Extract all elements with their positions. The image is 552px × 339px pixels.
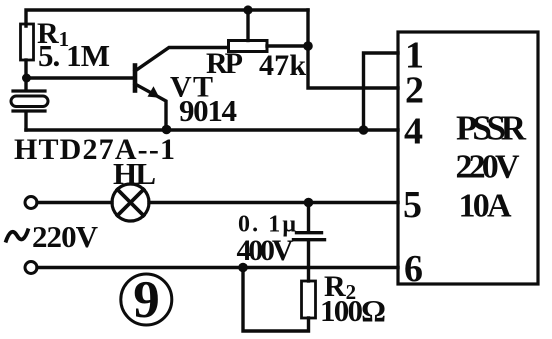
transistor VT collector bbox=[135, 48, 228, 72]
piezo element HTD27A-1 bbox=[11, 78, 48, 130]
potentiometer RP bbox=[229, 41, 268, 52]
node emitter junction dot bbox=[162, 125, 172, 135]
terminal lower left bbox=[25, 262, 37, 274]
capacitor C 0.1u top lead bbox=[307, 203, 310, 232]
figure number circle 9 bbox=[121, 274, 172, 325]
svg-text:10A: 10A bbox=[459, 188, 512, 225]
svg-text:9014: 9014 bbox=[179, 93, 237, 128]
node top rail wiper junction dot bbox=[243, 5, 252, 14]
wire node A to transistor base bbox=[26, 76, 135, 79]
label AC source tilde bbox=[6, 229, 29, 243]
wire terminal to lamp HL bbox=[37, 201, 112, 204]
svg-text:RP: RP bbox=[206, 47, 243, 80]
wire terminal to pin 6 of PSSR bbox=[37, 266, 398, 269]
lamp HL bbox=[112, 184, 149, 221]
node pin6 wire junction dot bbox=[238, 263, 248, 273]
node capacitor top junction dot bbox=[304, 198, 314, 208]
wire bottom rail to pin 4 of PSSR bbox=[26, 128, 398, 131]
svg-text:9: 9 bbox=[133, 271, 160, 329]
svg-text:400V: 400V bbox=[237, 234, 294, 267]
wire right vertical down to pin 2 of PSSR bbox=[308, 10, 398, 88]
resistor R2 bbox=[302, 281, 316, 318]
wire R1 bottom lead to node A bbox=[24, 60, 27, 78]
wire lamp to pin 5 of PSSR bbox=[149, 201, 398, 204]
transistor VT emitter with arrow bbox=[135, 84, 166, 130]
svg-text:2: 2 bbox=[405, 70, 424, 112]
capacitor C bottom lead crossing pin6 wire to R2 bbox=[307, 242, 310, 282]
svg-text:6: 6 bbox=[404, 248, 423, 290]
svg-text:HL: HL bbox=[113, 156, 156, 191]
emitter arrowhead bbox=[148, 86, 160, 98]
svg-text:5. 1M: 5. 1M bbox=[38, 38, 110, 73]
node pin1 bottom rail junction dot bbox=[359, 125, 369, 135]
wire pin 1 branch to bottom rail bbox=[364, 53, 399, 130]
capacitor C plates bbox=[294, 233, 325, 240]
svg-text:5: 5 bbox=[403, 184, 422, 226]
resistor R1 bbox=[21, 24, 34, 60]
terminal upper left bbox=[25, 197, 37, 209]
transistor VT base bar bbox=[133, 66, 138, 91]
wire top rail from R1 top to right corner bbox=[26, 10, 308, 26]
svg-text:220V: 220V bbox=[456, 149, 520, 186]
svg-text:PSSR: PSSR bbox=[456, 109, 527, 148]
wire R2 bottom to pin6 branch bbox=[243, 268, 309, 332]
wire RP wiper from top rail bbox=[246, 10, 249, 41]
wire RP right lead bbox=[267, 44, 308, 47]
svg-text:4: 4 bbox=[404, 111, 423, 153]
solid state relay box PSSR bbox=[398, 32, 538, 284]
node A junction dot bbox=[22, 74, 31, 83]
node RP output junction dot bbox=[303, 41, 313, 51]
svg-text:47k: 47k bbox=[259, 49, 306, 82]
svg-text:220V: 220V bbox=[32, 219, 99, 254]
svg-text:100Ω: 100Ω bbox=[320, 293, 386, 328]
